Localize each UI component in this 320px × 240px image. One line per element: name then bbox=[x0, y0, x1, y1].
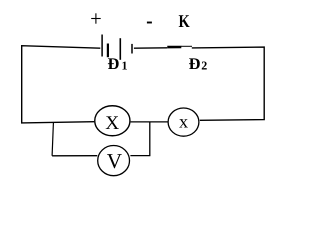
switch K contact (thin raised segment) bbox=[181, 45, 192, 47]
wire: voltmeter branch left vertical bbox=[52, 123, 53, 156]
switch K blade (thick segment) bbox=[167, 46, 181, 49]
svg-text:K: K bbox=[179, 11, 190, 31]
voltmeter V circle bbox=[98, 146, 130, 176]
svg-text:x: x bbox=[179, 111, 188, 131]
label + (battery positive terminal) bbox=[91, 13, 101, 23]
battery: plate 3 long bbox=[119, 38, 121, 60]
svg-text:1: 1 bbox=[122, 59, 128, 73]
battery: plate 2 short bbox=[107, 44, 109, 58]
wire: switch to top-right corner, right vertical, to lamp x bbox=[192, 47, 264, 120]
wire: voltmeter branch right vertical bbox=[149, 122, 151, 156]
lamp x (Đ2) circle bbox=[168, 108, 199, 136]
svg-text:2: 2 bbox=[201, 59, 207, 73]
svg-text:Đ: Đ bbox=[108, 54, 120, 73]
battery: plate 4 short bbox=[131, 44, 133, 54]
svg-text:V: V bbox=[107, 149, 123, 173]
wire: voltmeter branch left horizontal bbox=[52, 155, 97, 157]
label - (battery negative terminal) bbox=[147, 22, 152, 24]
wire: top-left segment with left vertical drop and middle wire to lamp X bbox=[22, 46, 101, 123]
svg-text:Đ: Đ bbox=[189, 54, 201, 73]
svg-text:X: X bbox=[105, 113, 119, 134]
wire: between lamp X and lamp x bbox=[131, 121, 168, 123]
lamp X (Đ1) circle bbox=[95, 106, 130, 136]
wire: voltmeter branch right horizontal bbox=[130, 155, 150, 157]
battery: plate 1 long bbox=[101, 35, 103, 57]
wire: battery to switch bbox=[134, 47, 167, 49]
